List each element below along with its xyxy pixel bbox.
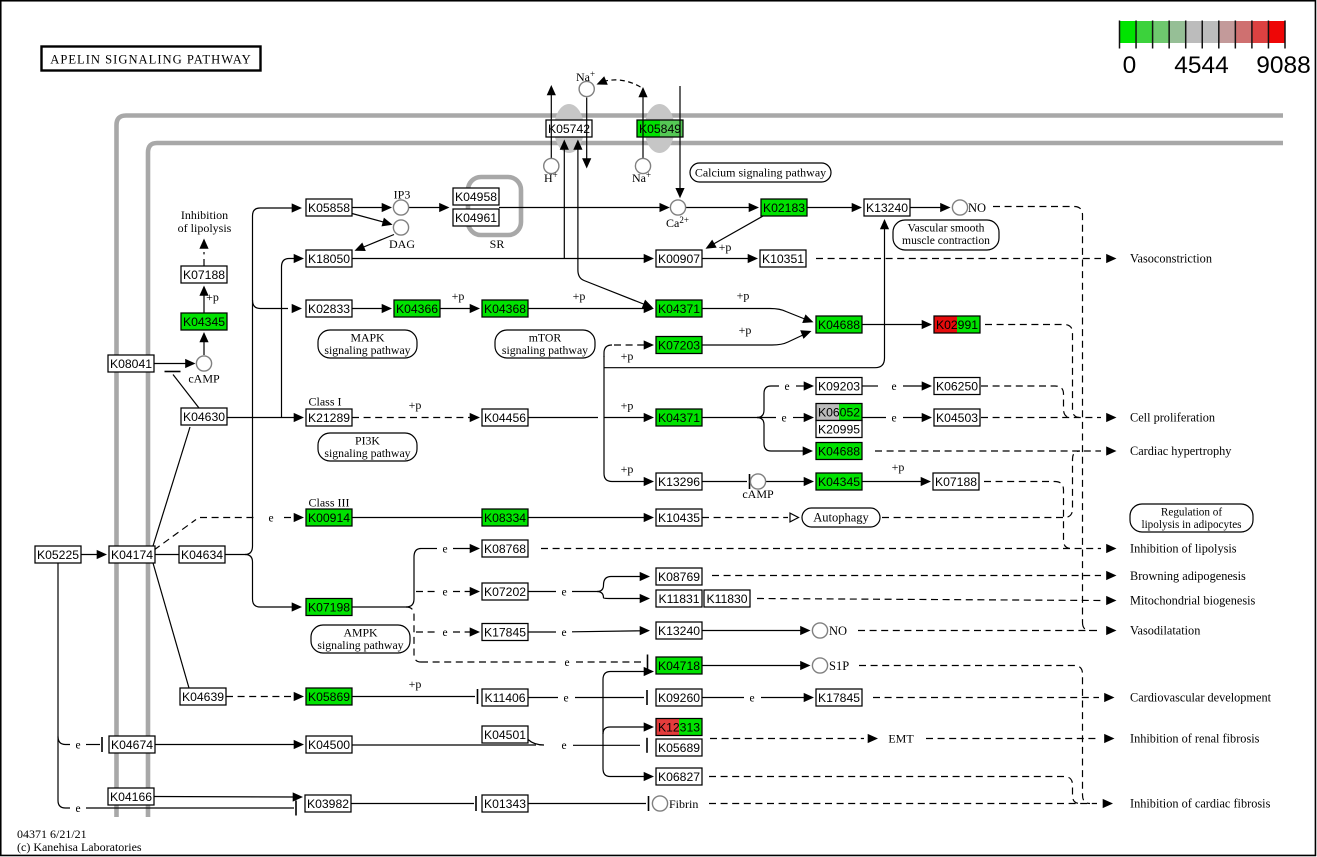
dashed wire EMT to inhibition of renal fibrosis: [926, 738, 1099, 740]
wire IP3 to K04958/K04961: [409, 207, 443, 209]
gene box K18050: [306, 250, 352, 267]
svg-text:K04371: K04371: [658, 302, 700, 316]
gene box K07188: [181, 266, 227, 283]
wire Na+ in through K05742: [586, 98, 588, 160]
compound Ca2+: [670, 200, 685, 215]
svg-text:K05869: K05869: [308, 690, 350, 704]
gene box K04688: [816, 443, 862, 460]
wire K13296 to cAMP (inhibition): [702, 481, 747, 483]
dashed wire K06827 to cardiac fibrosis row: [709, 777, 1080, 804]
svg-text:K20995: K20995: [818, 423, 860, 437]
gene box K04630: [181, 408, 227, 425]
svg-text:0: 0: [1123, 52, 1137, 79]
svg-text:e: e: [268, 512, 273, 524]
svg-text:K04688: K04688: [818, 445, 860, 459]
wire K01343 to Fibrin (inhibition): [528, 803, 646, 805]
gene box K17845: [816, 689, 862, 706]
gene box K07198: [306, 599, 352, 616]
svg-text:Cardiovascular development: Cardiovascular development: [1130, 691, 1272, 705]
gene box K02183: [761, 199, 807, 216]
oval Regulation of lipolysis in adipocytes: [1130, 504, 1253, 532]
gene box K07203: [656, 337, 702, 354]
gene box K08769: [656, 568, 702, 585]
gene box K04961: [453, 209, 499, 226]
wire K00914 to K08334: [352, 517, 482, 519]
svg-text:DAG: DAG: [389, 237, 415, 251]
svg-text:K04958: K04958: [455, 190, 497, 204]
gene box K09260: [656, 689, 702, 706]
gene box K06250: [934, 378, 980, 395]
compound DAG: [393, 220, 408, 235]
svg-text:K04634: K04634: [181, 548, 223, 562]
gene box K13240: [864, 199, 910, 216]
dashed wire Fibrin to inhibition of cardiac fibrosis: [709, 803, 1097, 805]
wire K04166 to K03982: [154, 796, 295, 799]
svg-text:+p: +p: [621, 462, 634, 476]
dashed wire K17845 to cardiovascular development: [873, 697, 1099, 699]
transporter ellipse K05742: [554, 104, 584, 153]
wire Na+ out through K05849: [642, 96, 644, 158]
gene box K17845: [482, 624, 528, 641]
svg-text:K13296: K13296: [658, 475, 700, 489]
branch to K13296: [604, 474, 646, 482]
transporter ellipse K05849: [645, 104, 675, 153]
cell membrane outer: [117, 116, 1284, 818]
svg-text:e: e: [891, 381, 896, 393]
svg-text:+p: +p: [452, 289, 465, 303]
compound Na+ top: [579, 81, 594, 96]
svg-text:Inhibition of renal fibrosis: Inhibition of renal fibrosis: [1130, 732, 1260, 746]
svg-text:K07203: K07203: [658, 339, 700, 353]
wire K09203 to K06250: [862, 385, 878, 387]
wire K04345 to K07188: [862, 481, 924, 483]
svg-text:NO: NO: [829, 624, 847, 638]
wire K04174 to K04639: [153, 563, 189, 688]
inhibition K04630 to K08041: [173, 375, 199, 409]
svg-text:K04371: K04371: [658, 411, 700, 425]
gene box K04501: [482, 726, 528, 743]
gene box K06827: [656, 768, 702, 785]
compound H+: [544, 158, 559, 173]
dashed wire K04639 to K05869: [226, 696, 296, 698]
svg-text:K05858: K05858: [308, 201, 350, 215]
dashed brace down: [406, 607, 421, 662]
gene box K04371: [656, 409, 702, 426]
svg-text:+p: +p: [621, 399, 634, 413]
svg-text:Cell proliferation: Cell proliferation: [1130, 411, 1215, 425]
svg-text:K13240: K13240: [866, 201, 908, 215]
svg-text:+p: +p: [206, 290, 219, 304]
svg-text:Fibrin: Fibrin: [669, 797, 698, 811]
wire K13240 to NO: [702, 630, 804, 632]
wire cAMP to K04345: [766, 481, 806, 483]
gene box K04958: [453, 188, 499, 205]
svg-text:K08334: K08334: [484, 511, 526, 525]
svg-text:K07188: K07188: [935, 475, 977, 489]
dashed wire S1P to cardiac fibrosis: [859, 666, 1090, 804]
wire K07203 to K04688: [702, 335, 804, 346]
wire Ca2+ entry via K05849: [679, 86, 681, 194]
dashed wire K07188 up to Inhibition of lipolysis: [203, 252, 205, 266]
wire K05858 to IP3: [352, 207, 386, 209]
gene box K04503: [934, 409, 980, 426]
wire K07198 to brace: [352, 606, 406, 608]
dashed branch to K07203: [604, 345, 612, 357]
bus from K05225 down: [57, 564, 59, 801]
svg-text:+p: +p: [573, 289, 586, 303]
wire K04371 out brace: [702, 417, 757, 419]
pathway oval vascular smooth muscle contraction: [893, 220, 999, 250]
dashed wire K04688b to cardiac hypertrophy: [875, 450, 1101, 452]
svg-text:e: e: [564, 657, 569, 669]
oval Autophagy: [802, 508, 880, 527]
svg-text:K04174: K04174: [111, 548, 153, 562]
svg-text:Calcium signaling pathway: Calcium signaling pathway: [695, 166, 826, 180]
pathway oval mTOR: [495, 330, 595, 358]
gene box K05689: [656, 739, 702, 756]
compound cAMP left: [196, 356, 211, 371]
gene box K04345: [816, 473, 862, 490]
gene box K07188: [933, 473, 979, 490]
svg-text:K13240: K13240: [658, 624, 700, 638]
gene box K05858: [306, 199, 352, 216]
wire K05869 to K11406 (inhibition): [352, 696, 475, 698]
wire K04345 up to K07188: [203, 291, 205, 313]
svg-text:K11831: K11831: [658, 592, 699, 606]
branch to K06827: [603, 745, 646, 777]
wire SR channels to Ca2+: [499, 207, 664, 209]
gene box K01343: [482, 795, 528, 812]
gene box K04166: [108, 788, 154, 805]
compound NO lower: [812, 623, 827, 638]
bus branch to K02833: [253, 300, 289, 309]
gene box K11830: [704, 590, 750, 607]
gene box K04345: [181, 313, 227, 330]
wire brace down to K04688b: [757, 418, 805, 452]
dashed wire K02991 to cell proliferation row: [985, 325, 1080, 418]
wire K07202 out: [528, 591, 556, 593]
svg-text:lipolysis in adipocytes: lipolysis in adipocytes: [1141, 519, 1241, 531]
svg-text:Class I: Class I: [309, 395, 342, 409]
svg-text:S1P: S1P: [829, 659, 849, 673]
svg-text:+p: +p: [409, 677, 422, 691]
svg-text:+p: +p: [719, 240, 732, 254]
bus from K04634 up to K05858: [245, 208, 294, 555]
gene box K08041: [108, 355, 154, 372]
wire K03982 to K01343 (inhibition): [351, 803, 474, 805]
svg-text:K07188: K07188: [183, 268, 225, 282]
svg-text:SR: SR: [490, 237, 505, 251]
svg-text:e: e: [442, 586, 447, 598]
svg-text:e: e: [561, 740, 566, 752]
gene box K00914: [306, 509, 352, 526]
gene box K04688: [816, 316, 862, 333]
dashed wire K06250 to cell proliferation: [981, 386, 1071, 418]
gene box K10435: [656, 509, 702, 526]
gene box K00907: [656, 250, 702, 267]
svg-text:K00914: K00914: [308, 511, 350, 525]
svg-text:Browning adipogenesis: Browning adipogenesis: [1130, 569, 1246, 583]
dashed wire K12313/K05689 to EMT: [710, 738, 864, 740]
svg-text:signaling pathway: signaling pathway: [324, 446, 410, 460]
branch to K12313: [603, 727, 646, 734]
svg-text:Inhibition: Inhibition: [181, 208, 228, 222]
pathway oval Calcium signaling: [690, 163, 831, 182]
svg-text:Vasodilatation: Vasodilatation: [1130, 624, 1200, 638]
wire K04674 to K04500: [155, 744, 296, 746]
svg-text:Inhibition of cardiac fibrosis: Inhibition of cardiac fibrosis: [1130, 797, 1271, 811]
wire to K06052/K20995: [757, 417, 776, 419]
svg-text:K09260: K09260: [658, 691, 700, 705]
bus lower right vertical: [603, 672, 646, 746]
svg-text:K04630: K04630: [183, 410, 225, 424]
svg-text:e: e: [563, 692, 568, 704]
svg-text:Vasoconstriction: Vasoconstriction: [1130, 252, 1212, 266]
svg-text:Cardiac hypertrophy: Cardiac hypertrophy: [1130, 444, 1232, 458]
gene box K09203: [816, 378, 862, 395]
gene box K20995: [816, 421, 862, 438]
svg-text:K10351: K10351: [762, 252, 804, 266]
dashed arc Na+ transfer: [603, 80, 641, 87]
gene box K03982: [305, 795, 351, 812]
gene box K08768: [482, 540, 528, 557]
wire K05225 to K04174: [81, 554, 98, 556]
wire K04456 to K04371 (PI3K row): [528, 417, 598, 419]
svg-text:K02833: K02833: [308, 302, 350, 316]
compound Na+ bottom: [635, 158, 650, 173]
wire K02183 to K13240: [807, 207, 856, 209]
svg-text:4544: 4544: [1174, 52, 1229, 79]
svg-text:K04688: K04688: [818, 318, 860, 332]
gene box K05742: [546, 120, 592, 137]
wire K08041 to cAMP: [154, 363, 189, 365]
dashed wire K11830 to mitochondrial biogenesis: [757, 599, 1101, 601]
wire Ca2+ to K02183: [686, 207, 753, 209]
compound cAMP right: [750, 474, 765, 489]
wire K05742 down to K04371: [577, 148, 579, 270]
svg-text:K10435: K10435: [658, 511, 700, 525]
svg-text:Vascular smooth: Vascular smooth: [908, 222, 985, 235]
wire K17845 to K13240: [528, 631, 556, 633]
wire cAMP up to K04345: [203, 337, 205, 355]
wire K04630 to K21289: [227, 417, 298, 419]
gene box K08334: [482, 509, 528, 526]
dashed wire K08769 to browning adipogenesis: [712, 575, 1101, 577]
branch to K13240 via long line: [604, 228, 885, 368]
svg-text:K04166: K04166: [110, 790, 152, 804]
svg-text:K04718: K04718: [658, 659, 700, 673]
svg-text:e: e: [75, 739, 80, 751]
compound IP3: [393, 200, 408, 215]
gene box K21289: [306, 409, 352, 426]
svg-text:K04345: K04345: [818, 475, 860, 489]
svg-text:K01343: K01343: [484, 797, 526, 811]
gene box K05869: [306, 688, 352, 705]
svg-text:IP3: IP3: [394, 188, 411, 202]
svg-text:K18050: K18050: [308, 252, 350, 266]
svg-text:K04500: K04500: [308, 738, 350, 752]
dashed wire K04503 to cell proliferation: [981, 417, 1101, 419]
wire K04371 to K04688: [702, 309, 806, 320]
dashed wire K08768 to inhibition of lipolysis: [541, 548, 1101, 550]
gene box K04174: [109, 546, 155, 563]
svg-text:e: e: [784, 381, 789, 393]
svg-text:e: e: [442, 627, 447, 639]
dashed wire K07188 to inhibition of lipolysis row: [984, 482, 1071, 549]
svg-text:Inhibition of lipolysis: Inhibition of lipolysis: [1130, 542, 1237, 556]
dashed branch to K17845: [416, 631, 437, 633]
wire K04368 to K04371: [528, 308, 648, 310]
wire K13240 to NO: [910, 207, 944, 209]
svg-text:K02991: K02991: [936, 318, 978, 332]
wire K04634 to bus: [225, 554, 245, 556]
wire K04500 to e junction: [352, 744, 536, 746]
svg-text:NO: NO: [968, 201, 986, 215]
dashed branch to K04718 (inhibition): [421, 661, 558, 663]
gene box K04368: [482, 300, 528, 317]
branch to K08768: [421, 548, 437, 550]
gene box K04634: [179, 546, 225, 563]
svg-text:K08769: K08769: [658, 570, 700, 584]
svg-text:K04501: K04501: [484, 728, 526, 742]
wire K05858 to DAG: [352, 214, 387, 224]
svg-text:+p: +p: [621, 349, 634, 363]
wire K04718 to S1P: [702, 665, 804, 667]
svg-text:K05225: K05225: [37, 548, 79, 562]
compound NO: [952, 200, 967, 215]
svg-text:cAMP: cAMP: [188, 372, 220, 386]
gene box K11406: [482, 689, 528, 706]
wire K18050 to K00907: [352, 258, 648, 260]
wire K08334 to K10435: [528, 517, 646, 519]
svg-text:Regulation of: Regulation of: [1161, 507, 1222, 519]
gene box K05225: [35, 546, 81, 563]
svg-text:K03982: K03982: [307, 797, 349, 811]
svg-text:K06827: K06827: [658, 770, 700, 784]
title box APELIN SIGNALING PATHWAY: [42, 47, 261, 71]
pathway oval AMPK: [311, 625, 410, 653]
svg-text:K05689: K05689: [658, 741, 700, 755]
pathway oval MAPK: [318, 330, 417, 358]
svg-text:K07198: K07198: [308, 601, 350, 615]
gene box K07202: [482, 583, 528, 600]
gene box K10351: [760, 250, 806, 267]
gene box K05849: [637, 120, 683, 137]
pathway oval PI3K: [318, 433, 417, 461]
svg-text:cAMP: cAMP: [742, 487, 774, 501]
svg-text:+p: +p: [737, 289, 750, 303]
wire K06052 to K04503: [862, 417, 886, 419]
gene box K13240: [656, 622, 702, 639]
wire K11406 to K09260 (inhibition): [528, 697, 558, 699]
svg-text:K00907: K00907: [658, 252, 700, 266]
svg-text:+p: +p: [739, 323, 752, 337]
dashed wire NO to vasodilatation: [858, 630, 1101, 632]
svg-text:+p: +p: [409, 398, 422, 412]
svg-text:+p: +p: [892, 460, 905, 474]
SR membrane (sarcoplasmic reticulum): [468, 177, 521, 235]
compound S1P: [812, 658, 827, 673]
gene box K04639: [180, 688, 226, 705]
dashed wire Autophagy to cardiac hypertrophy row: [882, 451, 1080, 518]
wire K04174 to K04634: [155, 554, 179, 556]
svg-text:K07202: K07202: [484, 585, 526, 599]
svg-text:K04456: K04456: [484, 411, 526, 425]
wire K02183 to K00907: [710, 216, 763, 246]
pump wires over boxes: [550, 120, 552, 137]
svg-text:APELIN SIGNALING PATHWAY: APELIN SIGNALING PATHWAY: [50, 53, 252, 67]
svg-text:K08041: K08041: [110, 357, 152, 371]
svg-text:e: e: [561, 627, 566, 639]
svg-text:signaling pathway: signaling pathway: [502, 343, 588, 357]
svg-text:K12313: K12313: [658, 721, 700, 735]
compound Fibrin: [652, 796, 667, 811]
gene box K02833: [306, 300, 352, 317]
svg-text:e: e: [442, 543, 447, 555]
wire up into K05742 (left): [563, 148, 565, 259]
svg-text:signaling pathway: signaling pathway: [324, 343, 410, 357]
svg-text:9088: 9088: [1256, 52, 1311, 79]
dashed branch to K07202: [416, 591, 437, 593]
svg-text:EMT: EMT: [888, 732, 914, 746]
branch K04630 row up to K18050: [282, 259, 297, 418]
gene box K04366: [394, 300, 440, 317]
dashed elbow NO row join: [1083, 623, 1091, 631]
gene box K04674: [109, 736, 155, 753]
svg-text:Class III: Class III: [309, 496, 350, 510]
svg-text:e: e: [75, 803, 80, 815]
wire K04688 to K02991: [862, 324, 926, 326]
wire K00907 to K10351: [702, 258, 752, 260]
gene box K02991: [934, 316, 980, 333]
svg-text:Autophagy: Autophagy: [813, 511, 869, 525]
svg-text:e: e: [561, 586, 566, 598]
dashed wire K21289 to K04456: [352, 417, 472, 419]
svg-text:muscle contraction: muscle contraction: [902, 234, 990, 247]
gene box K11831: [656, 590, 702, 607]
svg-text:K08768: K08768: [484, 542, 526, 556]
svg-text:Mitochondrial biogenesis: Mitochondrial biogenesis: [1130, 594, 1256, 608]
svg-text:K06052: K06052: [818, 406, 860, 420]
svg-text:K17845: K17845: [818, 691, 860, 705]
bus branch down to K07198: [245, 555, 294, 608]
svg-text:K17845: K17845: [484, 626, 526, 640]
svg-text:K04503: K04503: [936, 411, 978, 425]
svg-text:K09203: K09203: [818, 380, 860, 394]
svg-text:K11406: K11406: [484, 691, 525, 705]
e-row lower from K05225 bus: [58, 801, 70, 809]
wire K09260 to K17845: [702, 697, 744, 699]
svg-text:K04674: K04674: [111, 738, 153, 752]
svg-text:e: e: [891, 412, 896, 424]
svg-text:K04366: K04366: [396, 302, 438, 316]
gene box K12313: [656, 719, 702, 736]
svg-text:(c) Kanehisa Laboratories: (c) Kanehisa Laboratories: [17, 840, 142, 854]
gene box K06052: [816, 404, 862, 421]
gene box K04500: [306, 736, 352, 753]
bus PI3K-AKT vertical: [603, 356, 605, 474]
dashed wire K10351 to vasoconstriction: [816, 258, 1101, 260]
svg-text:K02183: K02183: [763, 201, 805, 215]
svg-text:signaling pathway: signaling pathway: [317, 638, 403, 652]
dashed wire K04174 to Class III row: [154, 520, 196, 551]
cell membrane inner: [148, 143, 1283, 817]
svg-text:e: e: [781, 412, 786, 424]
svg-text:e: e: [749, 692, 754, 704]
wire K04174 to K04630: [153, 427, 190, 546]
gene box K04456: [482, 409, 528, 426]
legend gradient bar: [1120, 21, 1311, 80]
